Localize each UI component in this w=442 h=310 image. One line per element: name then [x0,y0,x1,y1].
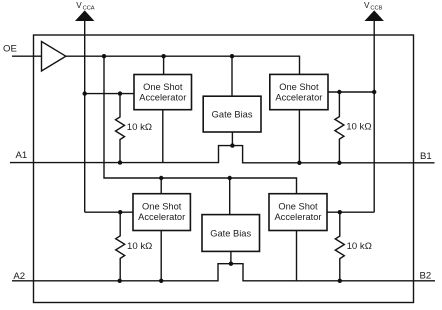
wire OE to OSA1 top [163,56,165,74]
resistor R3 [116,212,125,281]
gate bias U4 box [203,96,261,132]
wire row1 right [328,91,374,93]
wire OSA1 bottom [162,110,164,163]
wire row3 left [85,211,133,213]
junction row2-OSA3 [159,176,163,180]
junction rail B row1 [372,90,376,94]
wire VCCB rail [373,20,375,212]
junction R4-B2 [338,279,342,283]
wire OSA4 bottom [296,231,298,281]
wire OE distribution [66,56,300,74]
one-shot accelerator U5 box [133,194,190,231]
wire GB1 output [231,132,233,146]
junction OE-row2 [102,54,106,58]
svg-text:V: V [76,1,82,10]
gate bias U7 box [202,215,260,252]
wire A2-B2 channel with pass FET bump [12,264,435,281]
wire OE input [12,55,42,57]
wire row2 to GB2 top [229,178,231,215]
svg-text:A1: A1 [16,150,28,161]
wire A1-B1 channel with pass FET bump [10,146,435,163]
svg-text:One Shot: One Shot [279,82,319,92]
svg-text:Gate Bias: Gate Bias [210,228,251,238]
wire VCCA rail [84,20,86,212]
one-shot accelerator U6 box [269,194,327,231]
svg-text:A2: A2 [13,271,25,282]
wire OSA2 bottom [298,110,300,163]
junction GB1 gate [230,143,234,147]
wire row1 left [85,93,134,95]
svg-text:One Shot: One Shot [278,202,318,212]
junction R2 top [337,90,341,94]
wire GB2 output [230,251,232,263]
junction OE-OSA1 [161,54,165,58]
junction R1 top [118,91,122,95]
wire OE to row2 [104,56,297,194]
svg-text:OE: OE [3,43,17,54]
wire OSA3 bottom [160,231,162,281]
junction GB2 gate [229,262,233,266]
junction R1-A1 [118,160,122,164]
svg-text:B1: B1 [420,151,432,162]
svg-text:B2: B2 [420,271,432,282]
wire row3 right [327,211,374,213]
wire row2 to OSA3 top [160,178,162,194]
outer block boundary [34,35,414,303]
svg-text:Accelerator: Accelerator [139,93,186,103]
svg-text:CCB: CCB [370,6,382,12]
svg-text:Gate Bias: Gate Bias [212,109,253,119]
svg-text:10 kΩ: 10 kΩ [346,122,371,133]
junction R2-B1 [337,161,341,165]
resistor R1 [116,94,125,163]
svg-text:10 kΩ: 10 kΩ [347,241,372,252]
one-shot accelerator U2 box [134,75,192,110]
junction R3 top [118,210,122,214]
junction row2-GB2 [228,176,232,180]
buffer U1 [42,42,66,72]
junction OE-GB1 [230,54,234,58]
svg-text:Accelerator: Accelerator [275,93,322,103]
svg-text:Accelerator: Accelerator [274,212,321,222]
junction R3-A2 [118,279,122,283]
svg-text:Accelerator: Accelerator [138,212,185,222]
svg-text:One Shot: One Shot [143,82,183,92]
one-shot accelerator U3 box [270,74,328,109]
svg-text:10 kΩ: 10 kΩ [127,122,152,133]
svg-text:One Shot: One Shot [142,202,182,212]
svg-text:10 kΩ: 10 kΩ [127,241,152,252]
junction rail A row1 [83,91,87,95]
svg-text:V: V [364,1,370,10]
junction OSA2-B1 [297,161,301,165]
power symbol VCCB (up arrow) [365,10,384,21]
power symbol VCCA (up arrow) [75,10,94,21]
junction R4 top [338,210,342,214]
resistor R2 [335,92,344,163]
resistor R4 [335,212,344,281]
junction OSA3-A2 [159,279,163,283]
wire OE to GB1 top [231,56,233,96]
